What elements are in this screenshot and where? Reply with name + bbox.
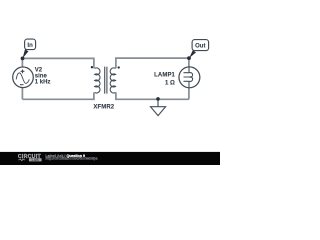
flag In tail — [23, 49, 29, 58]
lamp LAMP1 — [179, 67, 200, 88]
node In junction dot — [21, 57, 25, 61]
svg-text:1 kHz: 1 kHz — [35, 80, 51, 86]
wire bottom-left net (V2 bottom to XFMR2 primary bottom) — [22, 92, 94, 99]
svg-text:http://circuitlab.com/c/5kcnwm: http://circuitlab.com/c/5kcnwm8pa — [45, 157, 97, 161]
svg-text:1 Ω: 1 Ω — [165, 81, 175, 87]
svg-text:LAMP1: LAMP1 — [154, 72, 175, 78]
phase dot primary — [91, 66, 93, 68]
svg-text:Out: Out — [195, 43, 205, 49]
core — [105, 67, 107, 94]
footer CircuitLab logo — [18, 154, 42, 162]
transformer XFMR2 — [95, 67, 116, 94]
ground — [151, 99, 166, 116]
footer bar — [0, 152, 220, 165]
voltage source V2 — [13, 67, 34, 88]
wire right side (Out node down through LAMP1) — [188, 58, 190, 99]
svg-text:sine: sine — [35, 74, 48, 80]
label LAMP1 value (1 ohm) — [154, 72, 175, 86]
phase dot secondary — [118, 66, 120, 68]
wire top-left net (In node to XFMR2 primary top) — [22, 58, 94, 68]
node Out junction dot — [187, 56, 191, 60]
label V2 value (sine 1 kHz) — [35, 67, 51, 85]
svg-text:LAB: LAB — [32, 158, 40, 162]
node junction dot (ground tap) — [156, 97, 160, 101]
flag Out box — [192, 40, 209, 51]
wire left side (V2 branch, In node down to bottom) — [21, 58, 23, 99]
secondary winding — [110, 68, 115, 93]
primary winding — [95, 68, 100, 93]
svg-text:XFMR2: XFMR2 — [93, 105, 114, 111]
wire top-right net (XFMR2 secondary top to Out node) — [116, 58, 189, 68]
flag In box — [25, 39, 36, 50]
wire bottom-right net (XFMR2 secondary bottom to LAMP1 bottom, ground) — [116, 92, 189, 99]
svg-text:V2: V2 — [35, 67, 43, 73]
svg-text:In: In — [27, 43, 33, 49]
flag Out tail — [189, 50, 196, 58]
